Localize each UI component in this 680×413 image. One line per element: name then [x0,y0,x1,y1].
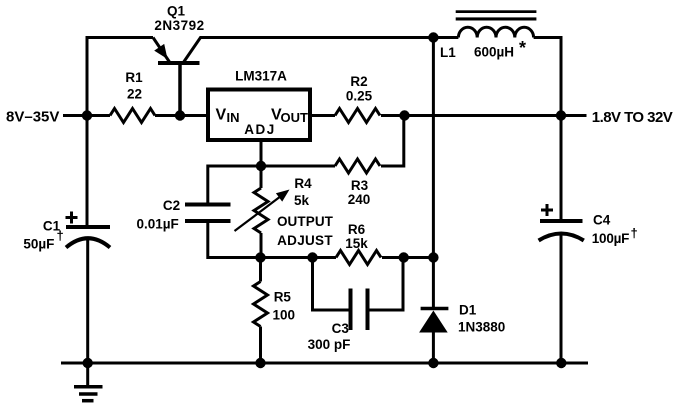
svg-text:R4: R4 [294,176,312,191]
label 300 pF [308,337,351,352]
svg-text:C3: C3 [332,321,350,336]
resistor R5 top lead [259,258,262,282]
wire vertical from node L1 down to node D1 top [432,38,435,258]
pin label VIN [216,107,240,125]
node L1 junction dot [428,32,438,42]
label 100uF [592,231,629,246]
capacitor C4 curved plate [539,234,584,241]
svg-text:†: † [57,228,64,243]
label L1 [440,45,456,60]
svg-text:0.01µF: 0.01µF [137,217,179,232]
svg-text:300 pF: 300 pF [308,337,351,352]
label 15k [345,236,368,251]
svg-text:V: V [216,107,227,124]
label R2 [350,74,367,89]
svg-text:R3: R3 [351,178,369,193]
inductor L1 core bar upper [456,10,537,13]
wire pot top lead [260,166,263,188]
wire mid rail left segment [261,256,337,259]
svg-text:100µF: 100µF [592,231,629,246]
label 1N3880 [458,319,505,334]
label C3 [332,321,350,336]
label C1 [43,219,61,234]
label R4 [294,176,312,191]
transistor Q1 emitter lead [153,38,170,63]
wire from inductor to right rail corner down to C4 [534,38,561,220]
svg-text:R6: R6 [348,222,366,237]
node C4 bottom junction dot [556,358,566,368]
svg-text:R5: R5 [274,290,292,305]
diode D1 bottom lead [432,333,435,364]
resistor R4 potentiometer zigzag [254,188,268,233]
label asterisk for L1 [519,38,526,58]
pin label ADJ [244,122,276,137]
ground symbol bar 1 [74,385,103,389]
wire ADJ node left to C2 [208,166,261,203]
ground symbol bar 3 [82,399,94,403]
node D1 bottom junction dot [428,358,438,368]
svg-text:2N3792: 2N3792 [154,18,204,33]
svg-text:100: 100 [273,307,296,322]
svg-text:Q1: Q1 [167,3,186,18]
label 0.25 [346,89,373,104]
wire ADJ node right to R3 [261,165,335,168]
label 0.01uF [137,217,179,232]
svg-text:5k: 5k [294,193,310,208]
node D1 top junction dot [428,252,438,262]
wire output stub [561,114,587,117]
resistor R6 [336,251,381,265]
resistor R4 wiper arrow head [276,190,290,202]
transistor Q1 base stem wire [178,64,182,116]
label 5k [294,193,310,208]
svg-text:*: * [519,38,526,58]
node R2 right junction dot [399,110,409,120]
transistor Q1 base bar [158,61,200,65]
label R5 [274,290,292,305]
svg-text:LM317A: LM317A [235,68,287,83]
svg-text:50µF: 50µF [23,236,54,251]
label R6 [348,222,366,237]
pin label VOUT [271,107,308,125]
svg-text:OUT: OUT [281,110,309,125]
label 8V-35V input [6,109,59,126]
wire R2 to output node [381,114,561,117]
transistor Q1 collector lead and top wire to node L1 [183,38,458,64]
label R1 [125,70,143,85]
capacitor C2 top plate [185,203,231,207]
capacitor C3 right plate [366,289,370,331]
label C2 [163,198,180,213]
label ADJUST [277,233,333,248]
capacitor C4 top plate [540,219,583,223]
resistor R3 [335,159,380,173]
svg-text:600µH: 600µH [474,45,514,60]
label 240 [348,192,371,207]
svg-text:C2: C2 [163,198,180,213]
wire mid rail right segment [382,256,433,259]
resistor R4 wiper arrow shaft [235,195,284,232]
diode D1 triangle [419,311,448,333]
svg-text:OUTPUT: OUTPUT [277,214,334,229]
svg-text:†: † [631,226,638,241]
wire pot bottom lead [260,233,263,258]
svg-text:0.25: 0.25 [346,89,373,104]
label 22 [127,87,142,102]
svg-text:R2: R2 [350,74,367,89]
svg-text:C4: C4 [593,213,611,228]
node R6 right junction dot [399,252,409,262]
wire ADJ pin stem [260,140,263,166]
svg-text:22: 22 [127,87,142,102]
inductor L1 core bar lower [456,17,537,20]
svg-text:240: 240 [348,192,371,207]
svg-text:1.8V TO 32V: 1.8V TO 32V [592,109,673,126]
svg-text:IN: IN [227,110,240,125]
capacitor C1 plus sign [66,212,78,224]
node R5 bottom junction dot [255,358,265,368]
node pot bottom junction dot [255,252,265,262]
capacitor C1 bottom lead [86,238,89,363]
capacitor C4 bottom lead [560,232,563,363]
transistor Q1 emitter arrow [154,44,167,59]
capacitor C4 plus sign [541,204,553,216]
label 2N3792 [154,18,204,33]
svg-text:15k: 15k [345,236,368,251]
label LM317A [235,68,287,83]
capacitor C2 bottom plate [185,219,231,223]
resistor R5 [254,282,268,327]
resistor R1 [110,109,155,123]
label C4 [593,213,611,228]
label 100 [273,307,296,322]
label C1 dagger [57,228,64,243]
capacitor C3 left lead [313,258,349,311]
svg-text:ADJ: ADJ [244,122,276,137]
node Q1 base junction dot [175,110,185,120]
diode D1 cathode bar [421,307,449,311]
inductor L1 winding [458,27,533,37]
node ground rail left junction dot [83,358,93,368]
resistor R5 bottom lead [259,327,262,364]
wire top-left from input rail corner to Q1 emitter [87,38,153,228]
op-amp U1 LM317A box [208,90,310,141]
wire R3 right up to output line [381,116,404,167]
wire ground rail [61,362,588,365]
label 1.8V TO 32V output [592,109,673,126]
capacitor C1 curved plate [66,238,110,247]
label 600uH [474,45,514,60]
capacitor C3 left plate [349,289,353,331]
ground symbol bar 2 [79,392,98,396]
label Q1 [167,3,186,18]
wire C2 bottom to mid rail [208,223,261,258]
svg-text:R1: R1 [125,70,143,85]
node ADJ junction dot [256,161,266,171]
ground symbol stem [86,363,89,386]
svg-text:1N3880: 1N3880 [458,319,505,334]
resistor R2 [335,109,380,123]
node C3 left junction dot [307,252,317,262]
node output junction dot [556,110,566,120]
label R3 [351,178,369,193]
label C4 dagger [631,226,638,241]
wire VOUT pin to R2 [310,114,335,117]
label D1 [459,302,477,317]
svg-text:8V–35V: 8V–35V [6,109,59,126]
capacitor C3 right lead [370,258,404,311]
diode D1 top lead [432,258,435,309]
svg-text:D1: D1 [459,302,477,317]
svg-text:L1: L1 [440,45,456,60]
node input junction dot [82,110,92,120]
wire input stub to input node [63,114,110,117]
label OUTPUT [277,214,334,229]
capacitor C1 top plate [66,225,110,229]
label 50uF [23,236,54,251]
wire R1 to LM317 VIN pin [155,114,208,117]
svg-text:ADJUST: ADJUST [277,233,333,248]
